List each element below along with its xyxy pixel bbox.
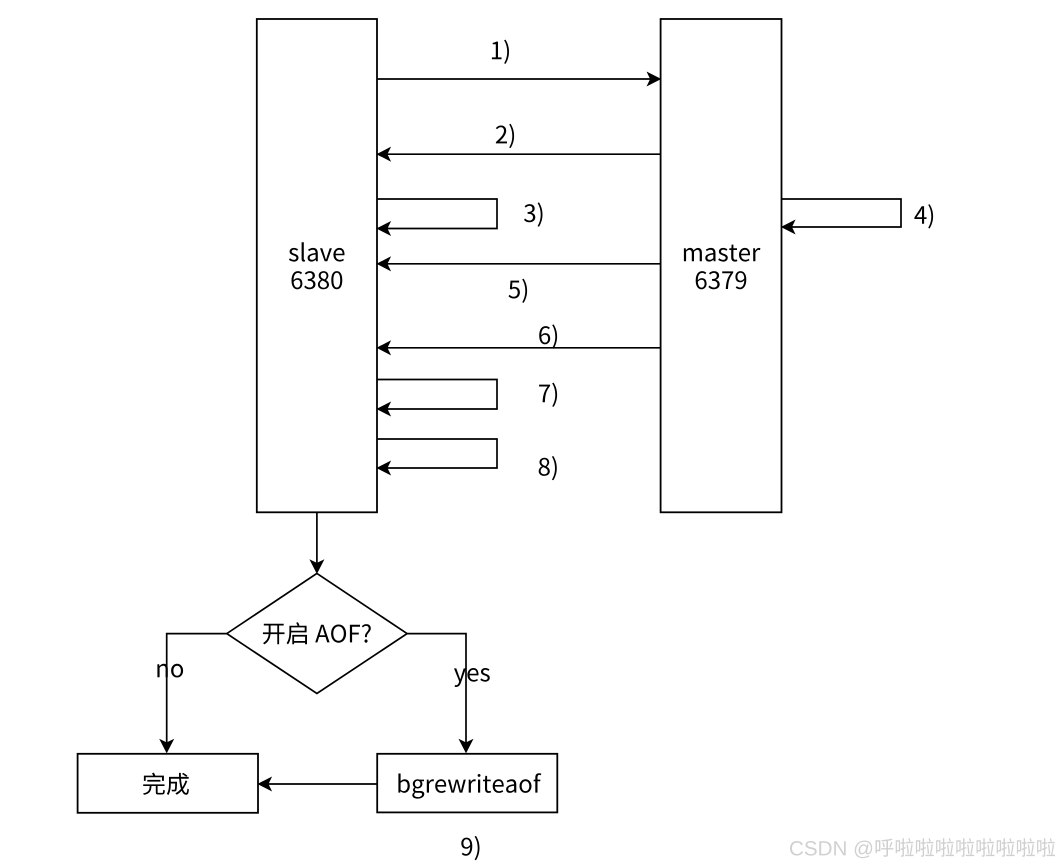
- diamond 开启 AOF?: [227, 573, 407, 693]
- label 6): [539, 324, 557, 348]
- arrow 5: master to slave: [378, 257, 661, 270]
- label no: [157, 664, 183, 678]
- label 9): [461, 836, 479, 860]
- watermark CSDN @呼啦啦啦啦啦啦啦啦: [790, 838, 1056, 859]
- label 1): [492, 40, 509, 64]
- arrow 4: master self-loop: [782, 199, 902, 233]
- label 7): [539, 383, 557, 407]
- label 完成: [143, 773, 189, 796]
- arrow 8: slave self-loop: [377, 439, 497, 474]
- label 3): [524, 202, 543, 226]
- arrow 2: master to slave: [378, 148, 661, 161]
- label yes: [454, 668, 490, 687]
- label 5): [509, 279, 528, 303]
- arrow 9: bgrewriteaof to 完成: [259, 778, 378, 791]
- label 开启 AOF?: [263, 622, 371, 644]
- label slave 6380: [289, 242, 345, 289]
- label 8): [539, 456, 557, 480]
- label 2): [496, 124, 514, 148]
- box 完成: [78, 754, 258, 813]
- arrow yes branch: diamond to bgrewriteaof: [407, 634, 472, 753]
- label 4): [914, 204, 933, 228]
- arrow no branch: diamond to 完成: [160, 634, 227, 753]
- arrow slave to decision diamond: [311, 512, 324, 573]
- box master 6379: [661, 19, 782, 512]
- arrow 7: slave self-loop: [377, 380, 497, 416]
- box slave 6380: [257, 19, 377, 512]
- arrow 6: master to slave: [378, 341, 661, 354]
- label bgrewriteaof: [398, 773, 541, 798]
- label master 6379: [684, 245, 761, 290]
- arrow 3: slave self-loop: [377, 199, 497, 235]
- arrow 1: slave to master: [377, 73, 660, 86]
- box bgrewriteaof: [377, 754, 557, 813]
